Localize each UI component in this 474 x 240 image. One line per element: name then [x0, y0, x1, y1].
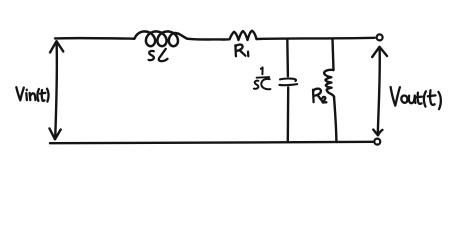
Vin arrowhead up — [50, 41, 63, 52]
resistor R2 bottom lead — [334, 97, 336, 142]
label Vin(t): n — [30, 93, 36, 100]
resistor R1 — [224, 31, 257, 40]
resistor R2 top lead — [333, 39, 334, 70]
resistor R2 squiggle — [324, 70, 334, 97]
terminal circle top-right — [377, 34, 383, 40]
wire top-left segment — [55, 37, 135, 40]
label Vout(t): o — [401, 96, 407, 103]
label Vin(t): ( — [37, 89, 39, 101]
label R1: R — [235, 45, 245, 57]
label Vin(t): ) — [47, 89, 49, 102]
inductor sL — [134, 31, 187, 46]
terminal circle bottom-right — [374, 139, 380, 145]
label Vin(t): V — [16, 87, 24, 100]
label 1/sC: C — [261, 79, 270, 89]
Vout arrowhead up — [372, 47, 387, 57]
label R2: subscript 2 — [322, 97, 326, 103]
label Vout(t): V — [391, 87, 400, 106]
Vout arrowhead down — [373, 130, 382, 136]
label 1/sC: 1 — [261, 67, 263, 74]
label R1: subscript 1 — [247, 52, 250, 57]
label Vin(t): i — [25, 90, 28, 100]
Vin arrowhead down — [50, 129, 61, 140]
Vout arrow line — [378, 48, 380, 134]
label Vout(t): t — [428, 90, 436, 105]
wire R1 to output node — [257, 38, 375, 39]
label Vout(t): u — [409, 96, 415, 104]
capacitor branch top lead — [286, 39, 289, 76]
label Vout(t): ) — [438, 92, 440, 109]
capacitor 1/sC top plate — [280, 78, 296, 81]
label R2: R — [313, 89, 322, 103]
label sL: L — [159, 49, 168, 61]
bottom wire — [50, 142, 374, 143]
label Vout(t): ( — [424, 91, 426, 106]
label Vin(t): t — [40, 90, 46, 101]
wire inductor to R1 — [187, 38, 224, 41]
label 1/sC: fraction bar — [257, 76, 270, 79]
label 1/sC: s — [254, 81, 258, 89]
capacitor bottom lead — [287, 88, 290, 143]
label sL: s — [149, 51, 154, 60]
Vin arrow line — [55, 42, 57, 138]
label Vout(t): t — [416, 93, 422, 104]
capacitor 1/sC bottom plate — [279, 84, 297, 85]
